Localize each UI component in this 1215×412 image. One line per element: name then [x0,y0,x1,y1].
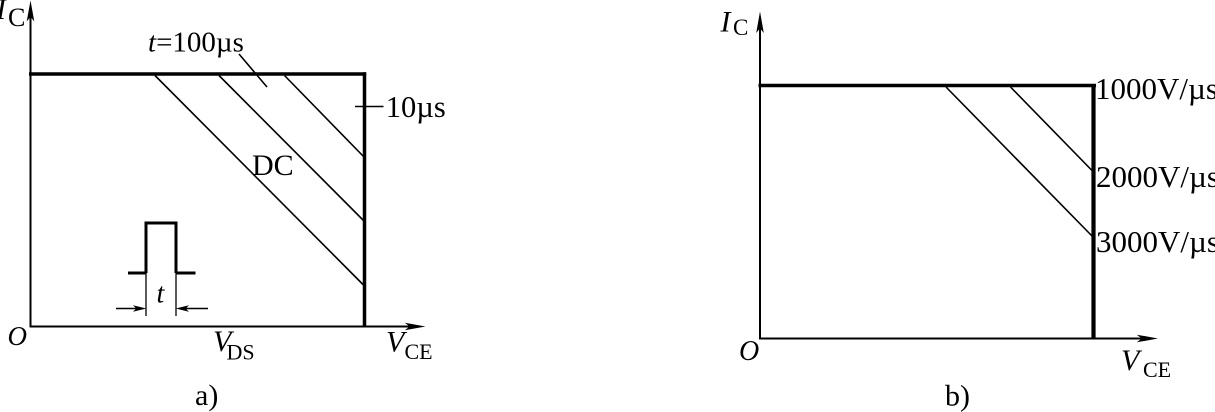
pulse top edge [145,222,178,225]
pulse left edge [145,222,148,274]
pulse right edge [175,222,178,274]
extension line left of pulse width [145,273,147,316]
svg-text:CE: CE [405,339,433,364]
dimension arrow left (points right) [116,305,146,312]
svg-text:t=100µs: t=100µs [148,27,244,59]
x-axis (b) [759,335,1158,343]
dimension arrow right (points left) [176,305,208,312]
svg-text:DS: DS [227,340,255,365]
svg-text:O: O [739,336,759,367]
svg-text:2000V/µs: 2000V/µs [1096,159,1215,194]
pulse baseline left [128,272,146,275]
y-axis (a) [27,1,35,327]
curve DC (innermost diagonal) (a) [155,76,364,286]
svg-text:CE: CE [1143,357,1171,382]
voltage-limit thick right line (b) [1091,84,1095,338]
svg-text:t: t [157,279,166,310]
curve t=100us (middle diagonal) (a) [219,76,364,222]
curve 10us (outer diagonal) (a) [285,76,365,158]
svg-text:b): b) [945,380,970,412]
svg-text:3000V/µs: 3000V/µs [1096,224,1215,259]
pulse baseline right [176,272,196,275]
extension line right of pulse width [175,273,177,316]
x-axis (a) [30,323,426,331]
svg-text:a): a) [195,379,218,412]
svg-text:O: O [8,321,28,351]
curve 2000V/us (outer diagonal) (b) [1011,87,1093,171]
svg-text:C: C [733,15,748,40]
leader line for 10us label [355,106,384,108]
voltage-limit thick right line (a) [363,72,367,326]
pulse waveform symbol [128,222,196,274]
leader line from t=100us label [239,54,267,87]
svg-text:DC: DC [252,149,294,182]
current-limit thick top line (b) [759,84,1097,87]
svg-text:C: C [8,3,25,32]
svg-text:10µs: 10µs [386,90,446,124]
y-axis (b) [756,12,764,339]
current-limit thick top line (a) [29,72,366,76]
svg-text:1000V/µs: 1000V/µs [1095,71,1215,106]
curve 3000V/us (inner diagonal) (b) [946,87,1092,236]
